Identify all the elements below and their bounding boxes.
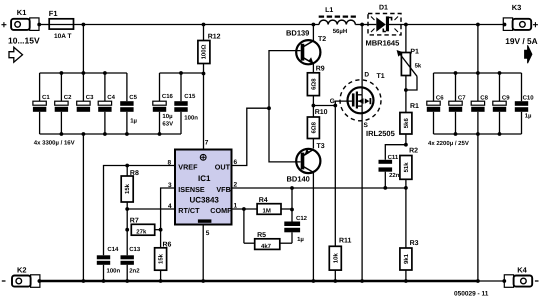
node T3 collector ground junction bbox=[312, 279, 316, 283]
svg-text:19V / 5A: 19V / 5A bbox=[505, 36, 537, 46]
node output bank top junction bbox=[476, 23, 480, 27]
svg-text:C15: C15 bbox=[184, 93, 196, 100]
svg-text:22n: 22n bbox=[389, 172, 400, 179]
svg-text:R10: R10 bbox=[315, 109, 328, 116]
node R2 bottom junction bbox=[404, 186, 408, 190]
svg-text:R4: R4 bbox=[259, 197, 268, 204]
diode D1 MBR1645 bbox=[366, 5, 402, 48]
node C11 bottom junction bbox=[383, 186, 387, 190]
svg-text:10µ: 10µ bbox=[162, 113, 173, 120]
svg-text:R9: R9 bbox=[316, 66, 325, 73]
svg-text:+: + bbox=[533, 20, 539, 31]
capacitor C3 bbox=[77, 73, 94, 112]
svg-text:15k: 15k bbox=[158, 253, 165, 264]
capacitor C5 bbox=[120, 73, 137, 134]
node gate drive junction bbox=[312, 104, 316, 108]
svg-text:ISENSE: ISENSE bbox=[178, 185, 205, 194]
svg-text:D1: D1 bbox=[379, 5, 388, 12]
svg-text:T3: T3 bbox=[317, 143, 325, 150]
connector K3 bbox=[503, 3, 539, 31]
wire RT/CT node down to C13 bbox=[126, 209, 128, 255]
svg-text:BD140: BD140 bbox=[287, 175, 310, 184]
svg-text:K3: K3 bbox=[512, 3, 522, 12]
svg-text:R3: R3 bbox=[410, 240, 419, 247]
svg-text:100n: 100n bbox=[107, 267, 121, 274]
capacitor C13 bbox=[121, 246, 141, 281]
capacitor C1 bbox=[33, 73, 50, 134]
node T1 drain junction bbox=[360, 23, 364, 27]
node R11 ground junction bbox=[333, 279, 337, 283]
svg-text:56µH: 56µH bbox=[333, 28, 347, 35]
op-amp IC1 UC3843 bbox=[175, 150, 232, 225]
node input junction at C3 column bbox=[82, 23, 86, 27]
wire VREF pin 8 line bbox=[104, 166, 176, 256]
capacitor C10 bbox=[515, 73, 534, 134]
wire bottom rail to K4 bbox=[478, 280, 504, 282]
wire bank ground drop bbox=[82, 134, 84, 281]
svg-text:COMP: COMP bbox=[210, 206, 232, 215]
svg-text:1µ: 1µ bbox=[525, 112, 532, 119]
wire output bank top bus bbox=[434, 72, 522, 74]
resistor R1 bbox=[400, 90, 419, 145]
capacitor C6 bbox=[427, 73, 444, 134]
potentiometer P1 bbox=[397, 25, 422, 91]
node output bank ground junction bbox=[476, 279, 480, 283]
resistor R11 bbox=[329, 106, 351, 282]
svg-text:UC3843: UC3843 bbox=[190, 196, 220, 205]
connector K4 bbox=[504, 266, 538, 288]
svg-text:C14: C14 bbox=[107, 246, 119, 253]
svg-text:5: 5 bbox=[206, 230, 210, 237]
wire output bank feed bbox=[477, 25, 479, 74]
svg-text:C10: C10 bbox=[523, 95, 535, 102]
capacitor C4 bbox=[98, 73, 115, 134]
wire gate node to MOSFET bbox=[313, 105, 335, 107]
transistor T2 BD139 bbox=[286, 25, 326, 73]
svg-text:P1: P1 bbox=[410, 48, 419, 55]
svg-text:100Ω: 100Ω bbox=[201, 44, 208, 59]
node K2 junction bbox=[38, 279, 42, 283]
svg-text:5k6: 5k6 bbox=[403, 118, 410, 129]
input arrow bbox=[9, 47, 23, 62]
svg-text:R1: R1 bbox=[410, 103, 419, 110]
capacitor C7 bbox=[449, 73, 466, 134]
svg-text:1µ: 1µ bbox=[297, 236, 304, 243]
svg-text:C16: C16 bbox=[162, 93, 174, 100]
resistor R6 bbox=[155, 230, 172, 281]
svg-text:C13: C13 bbox=[129, 246, 141, 253]
capacitor C2 bbox=[55, 73, 72, 134]
node R3 ground junction bbox=[404, 279, 408, 283]
svg-text:5k: 5k bbox=[415, 62, 422, 69]
resistor R3 bbox=[400, 188, 419, 281]
resistor R10 bbox=[307, 106, 327, 149]
svg-text:4x 2200µ / 25V: 4x 2200µ / 25V bbox=[428, 140, 469, 147]
svg-text:IC1: IC1 bbox=[198, 174, 211, 183]
node C14 ground junction bbox=[102, 279, 106, 283]
node R7 left junction bbox=[125, 228, 129, 232]
svg-text:C5: C5 bbox=[129, 94, 137, 101]
node VFB C12 junction bbox=[290, 186, 294, 190]
svg-text:27k: 27k bbox=[136, 229, 147, 236]
capacitor C12 bbox=[284, 215, 307, 243]
svg-text:F1: F1 bbox=[49, 9, 58, 18]
svg-text:K1: K1 bbox=[17, 8, 27, 17]
svg-text:T1: T1 bbox=[377, 73, 385, 80]
svg-text:10A T: 10A T bbox=[54, 33, 71, 40]
transistor T1 IRL2505 MOSFET bbox=[330, 25, 395, 282]
node base bus junction bbox=[267, 106, 271, 110]
node P1 wiper junction bbox=[404, 88, 408, 92]
node bank bus junctions bbox=[60, 71, 64, 75]
wire input drop to bank bbox=[82, 25, 84, 74]
capacitor C8 bbox=[471, 73, 488, 134]
capacitor C16 bbox=[153, 73, 174, 134]
svg-text:VFB: VFB bbox=[216, 185, 230, 194]
node R12 bottom junction bbox=[202, 72, 206, 76]
node R1/R2/C11 junction bbox=[404, 143, 408, 147]
svg-text:2n2: 2n2 bbox=[129, 267, 140, 274]
node IC pin5 ground junction bbox=[201, 279, 205, 283]
svg-text:G: G bbox=[330, 98, 335, 105]
node R12 top junction bbox=[202, 23, 206, 27]
node R6 ground junction bbox=[159, 279, 163, 283]
svg-text:7: 7 bbox=[205, 140, 209, 147]
fuse F1 bbox=[49, 9, 74, 40]
resistor R7 bbox=[130, 217, 161, 235]
wire top rail L1 to D1 bbox=[355, 24, 368, 26]
capacitor C9 bbox=[493, 73, 510, 134]
resistor R5 bbox=[255, 232, 292, 250]
node C13 ground junction bbox=[125, 279, 129, 283]
node R4 right junction bbox=[290, 208, 294, 212]
wire VFB pin 2 feedback line bbox=[232, 187, 406, 189]
svg-text:6Ω8: 6Ω8 bbox=[310, 78, 317, 90]
svg-text:S: S bbox=[364, 122, 369, 129]
node P1 top junction bbox=[404, 23, 408, 27]
svg-text:C1: C1 bbox=[42, 94, 50, 101]
wire RT/CT pin 4 line bbox=[127, 208, 175, 210]
svg-text:C4: C4 bbox=[107, 94, 115, 101]
node T1 source ground junction bbox=[360, 279, 364, 283]
svg-text:R11: R11 bbox=[339, 238, 352, 245]
wire C12 column bbox=[291, 188, 293, 222]
node R7 right junction bbox=[159, 228, 163, 232]
node left bank ground junction bbox=[82, 279, 86, 283]
svg-text:51k: 51k bbox=[403, 162, 410, 173]
svg-text:R12: R12 bbox=[208, 33, 221, 40]
wire R12 to IC pin 7 bbox=[203, 74, 205, 150]
wire left cap bank top bus bbox=[40, 72, 127, 74]
node T2 collector junction bbox=[312, 23, 316, 27]
wire top rail K1 to F1 bbox=[39, 24, 49, 26]
svg-text:MBR1645: MBR1645 bbox=[366, 38, 400, 47]
node RT/CT junction bbox=[125, 207, 129, 211]
resistor R9 bbox=[307, 66, 324, 106]
capacitor C11 bbox=[379, 154, 400, 188]
wire C16/C15 top bus bbox=[160, 72, 204, 74]
capacitor C14 bbox=[97, 246, 121, 281]
resistor R4 bbox=[257, 197, 292, 215]
svg-text:100n: 100n bbox=[184, 114, 198, 121]
svg-text:+: + bbox=[1, 20, 7, 31]
svg-text:10...15V: 10...15V bbox=[8, 35, 40, 45]
resistor R8 bbox=[121, 166, 139, 210]
wire OUT pin 6 to driver bases bbox=[232, 108, 270, 165]
svg-text:BD139: BD139 bbox=[286, 29, 309, 38]
svg-text:R7: R7 bbox=[130, 217, 139, 224]
svg-text:C3: C3 bbox=[86, 94, 94, 101]
wire COMP pin 1 node bbox=[232, 208, 258, 210]
wire output bank bottom bus bbox=[434, 133, 522, 135]
wire top rail F1 to L1 bbox=[74, 24, 320, 26]
connector K2 bbox=[2, 265, 40, 287]
svg-text:4x 3300µ / 16V: 4x 3300µ / 16V bbox=[34, 140, 75, 147]
svg-text:D: D bbox=[364, 72, 369, 79]
svg-text:6Ω8: 6Ω8 bbox=[310, 121, 317, 133]
svg-text:L1: L1 bbox=[325, 7, 333, 14]
svg-text:10k: 10k bbox=[332, 253, 339, 264]
svg-text:1µ: 1µ bbox=[130, 118, 137, 125]
resistor R12 bbox=[198, 25, 221, 74]
wire base bus bbox=[269, 51, 301, 162]
svg-text:T2: T2 bbox=[318, 36, 326, 43]
svg-text:IRL2505: IRL2505 bbox=[366, 129, 395, 138]
svg-text:K4: K4 bbox=[517, 266, 527, 275]
svg-text:R2: R2 bbox=[409, 148, 418, 155]
wire R1 bottom to C11 bbox=[385, 145, 406, 160]
svg-text:RT/CT: RT/CT bbox=[178, 206, 200, 215]
svg-text:C12: C12 bbox=[296, 215, 308, 222]
svg-text:VREF: VREF bbox=[178, 163, 198, 172]
wire top rail D1 to K3 bbox=[401, 24, 505, 26]
output arrow bbox=[525, 45, 532, 63]
resistor R2 bbox=[400, 148, 418, 188]
svg-text:4k7: 4k7 bbox=[261, 243, 272, 250]
wire bottom ground rail bbox=[39, 280, 478, 282]
capacitor C15 bbox=[174, 73, 198, 134]
svg-text:9k1: 9k1 bbox=[403, 253, 410, 264]
wire IC pin 5 to ground bbox=[202, 225, 204, 282]
svg-text:C2: C2 bbox=[64, 94, 72, 101]
svg-text:15k: 15k bbox=[124, 183, 131, 194]
svg-text:1M: 1M bbox=[263, 208, 271, 215]
wire output bank ground drop bbox=[477, 134, 479, 281]
connector K1 bbox=[1, 8, 41, 31]
wire ISENSE pin 3 line bbox=[161, 188, 175, 230]
svg-text:63V: 63V bbox=[162, 120, 173, 127]
transistor T3 BD140 bbox=[287, 143, 325, 281]
wire left cap bank bottom bus bbox=[40, 133, 181, 135]
svg-text:C11: C11 bbox=[388, 154, 399, 161]
svg-text:OUT: OUT bbox=[215, 163, 231, 172]
inductor L1 bbox=[319, 7, 356, 35]
svg-text:K2: K2 bbox=[17, 265, 27, 274]
node R8 top junction bbox=[125, 164, 129, 168]
node K4 junction bbox=[502, 279, 506, 283]
svg-text:050029 - 11: 050029 - 11 bbox=[454, 291, 489, 298]
